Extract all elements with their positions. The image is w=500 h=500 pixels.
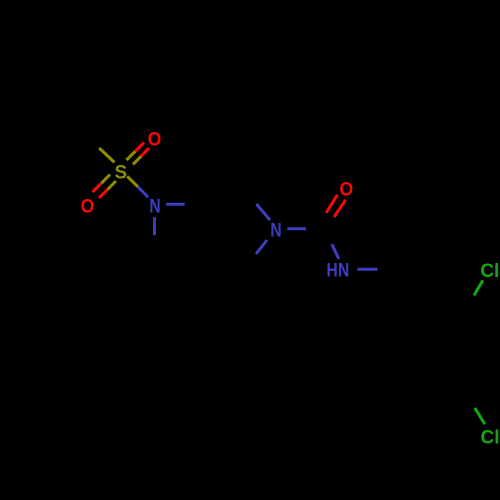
S=O1 double bond line B, S half bbox=[133, 156, 141, 164]
svg-text:S: S bbox=[114, 162, 127, 183]
svg-text:N: N bbox=[149, 195, 160, 217]
NH-CH2 bond, N half bbox=[358, 268, 378, 271]
svg-text:N: N bbox=[338, 259, 349, 281]
S=O1 double bond line A, S half bbox=[127, 151, 136, 160]
C=O carbonyl double bond line B, O half bbox=[334, 200, 346, 217]
S=O2 double bond line B, S half bbox=[108, 181, 117, 190]
N1-C7 ring bond, N half bbox=[153, 217, 156, 235]
svg-text:O: O bbox=[148, 128, 162, 150]
aryl C4'-Cl bond, Cl half bbox=[475, 408, 485, 424]
S=O2 double bond line B, O half bbox=[99, 190, 108, 199]
svg-text:O: O bbox=[339, 178, 353, 200]
S=O1 double bond line A, O half bbox=[135, 143, 144, 152]
svg-text:H: H bbox=[326, 259, 337, 281]
N2-C1 ring bond, N half bbox=[256, 204, 270, 220]
S=O2 double bond line A, S half bbox=[101, 175, 110, 184]
N1-C3 ring bond, N half bbox=[166, 203, 184, 206]
svg-text:Cl: Cl bbox=[481, 427, 500, 448]
C=O carbonyl double bond line A, O half bbox=[326, 195, 337, 213]
C(=O)-NH bond, N half bbox=[332, 244, 339, 259]
S=O1 double bond line B, O half bbox=[141, 148, 149, 156]
S-N1 bond, N half bbox=[138, 187, 148, 197]
svg-text:O: O bbox=[81, 195, 95, 217]
S=O2 double bond line A, O half bbox=[93, 183, 102, 192]
svg-text:N: N bbox=[270, 219, 281, 241]
aryl C2'-Cl bond, Cl half bbox=[474, 280, 483, 295]
svg-text:Cl: Cl bbox=[480, 261, 499, 282]
N2-C(=O) amide bond, N half bbox=[287, 227, 306, 230]
S-N1 bond, S half bbox=[127, 176, 138, 187]
N2-C4 ring bond, N half bbox=[256, 240, 267, 254]
S-CH3 bond, S half bbox=[99, 148, 114, 162]
